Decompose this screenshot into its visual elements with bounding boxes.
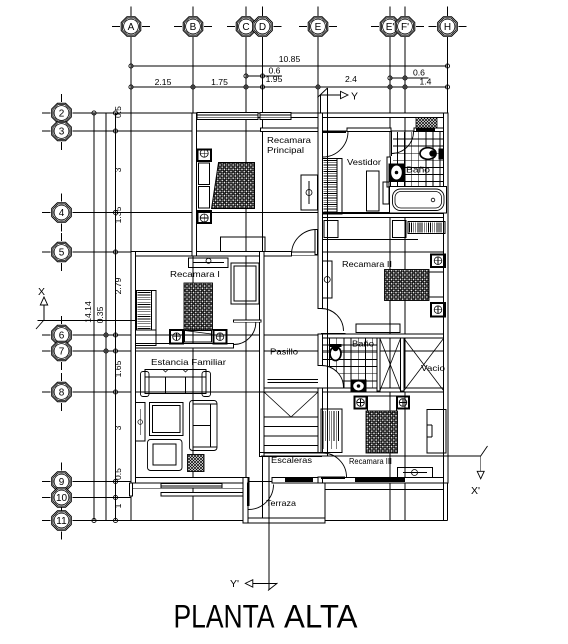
svg-text:D: D xyxy=(259,22,266,33)
svg-text:PLANTA: PLANTA xyxy=(174,599,276,635)
svg-text:Baño: Baño xyxy=(406,165,430,175)
svg-text:Pasillo: Pasillo xyxy=(270,347,298,357)
svg-text:3: 3 xyxy=(113,425,123,430)
svg-text:1.4: 1.4 xyxy=(420,77,432,87)
svg-text:14.14: 14.14 xyxy=(83,301,93,323)
svg-text:2.4: 2.4 xyxy=(345,74,357,84)
svg-text:8: 8 xyxy=(59,387,65,398)
svg-text:3: 3 xyxy=(59,126,65,137)
svg-text:1.35: 1.35 xyxy=(113,206,123,223)
svg-text:Vestidor: Vestidor xyxy=(347,157,381,167)
svg-text:0.5: 0.5 xyxy=(113,106,123,118)
svg-text:6: 6 xyxy=(59,330,65,341)
svg-text:5: 5 xyxy=(59,247,65,258)
svg-text:A: A xyxy=(128,22,135,33)
svg-text:C: C xyxy=(242,22,249,33)
svg-text:2.79: 2.79 xyxy=(113,277,123,294)
svg-text:10.85: 10.85 xyxy=(279,54,301,64)
svg-text:Vacio: Vacio xyxy=(421,363,445,373)
svg-text:H: H xyxy=(444,22,451,33)
svg-text:1.95: 1.95 xyxy=(266,74,283,84)
svg-text:1: 1 xyxy=(113,503,123,508)
svg-text:Recamara I: Recamara I xyxy=(170,269,220,279)
svg-text:F': F' xyxy=(401,22,409,33)
svg-text:Escaleras: Escaleras xyxy=(271,455,312,465)
svg-text:Recamara III: Recamara III xyxy=(349,456,392,466)
svg-text:Principal: Principal xyxy=(267,145,304,155)
svg-text:Recamara II: Recamara II xyxy=(342,259,392,269)
svg-text:9: 9 xyxy=(59,477,65,488)
svg-text:Y': Y' xyxy=(230,578,239,590)
svg-text:ALTA: ALTA xyxy=(284,599,358,635)
svg-text:2: 2 xyxy=(59,108,65,119)
svg-text:4: 4 xyxy=(59,208,65,219)
svg-text:3: 3 xyxy=(113,167,123,172)
svg-text:0.5: 0.5 xyxy=(113,468,123,480)
svg-text:Estancia Familiar: Estancia Familiar xyxy=(151,357,226,367)
svg-text:Baño: Baño xyxy=(352,339,374,349)
svg-text:11: 11 xyxy=(56,516,67,527)
svg-text:10: 10 xyxy=(56,493,68,504)
svg-text:2.15: 2.15 xyxy=(155,77,172,87)
svg-text:E: E xyxy=(315,22,322,33)
svg-text:1.75: 1.75 xyxy=(211,77,228,87)
svg-text:E': E' xyxy=(386,22,395,33)
svg-text:Recamara: Recamara xyxy=(267,135,311,145)
svg-text:B: B xyxy=(190,22,197,33)
svg-text:1.65: 1.65 xyxy=(113,360,123,377)
svg-text:7: 7 xyxy=(59,346,65,357)
svg-text:X': X' xyxy=(471,485,480,497)
svg-text:Y: Y xyxy=(351,91,358,103)
svg-text:Terraza: Terraza xyxy=(266,498,296,508)
